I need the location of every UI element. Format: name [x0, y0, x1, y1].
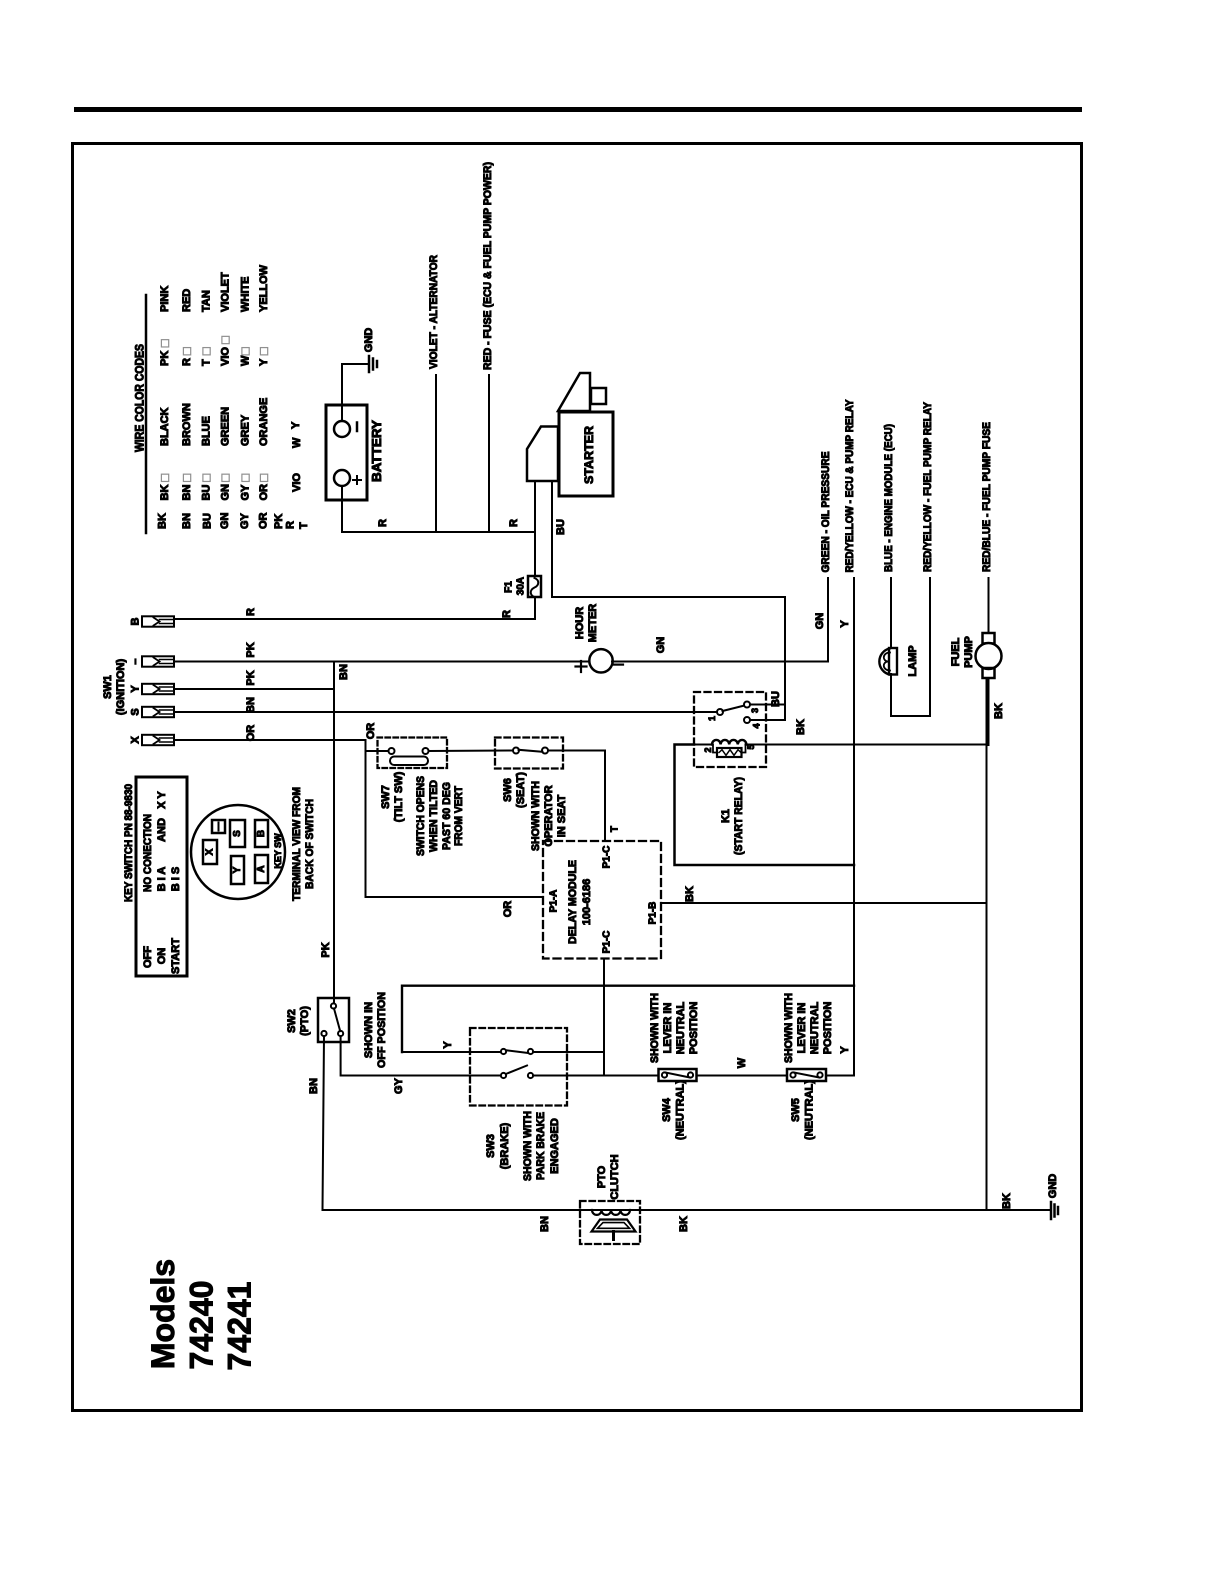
svg-text:LEVER IN: LEVER IN	[796, 1003, 808, 1054]
wire OR down to delay module P1-A	[366, 740, 544, 897]
relay K1 pin 3 contact	[744, 702, 750, 708]
svg-text:PK: PK	[159, 351, 171, 366]
svg-text:POSITION: POSITION	[688, 1002, 700, 1055]
svg-text:SHOWN IN: SHOWN IN	[363, 1002, 375, 1058]
SW3 upper contacts closed	[501, 1049, 506, 1054]
svg-text:PAST 60 DEG: PAST 60 DEG	[441, 782, 453, 850]
svg-text:BN: BN	[245, 697, 257, 713]
delay module 100-6186 enclosure	[543, 841, 661, 959]
wire alternator feed	[435, 375, 437, 532]
svg-text:BK: BK	[159, 485, 171, 501]
svg-text:S: S	[130, 708, 142, 715]
svg-text:SHOWN WITH: SHOWN WITH	[522, 1111, 534, 1181]
svg-text:(PTO): (PTO)	[299, 1006, 311, 1036]
svg-text:30A: 30A	[516, 577, 527, 595]
svg-text:BU: BU	[202, 513, 214, 529]
svg-text:S: S	[232, 830, 243, 837]
svg-text:F1: F1	[504, 581, 515, 593]
svg-text:GN: GN	[655, 637, 667, 654]
key switch terminal view circle	[191, 805, 285, 899]
SW2 PTO switch box	[318, 998, 349, 1042]
hour meter minus mark	[614, 663, 623, 665]
wire lamp to fuel pump relay feed	[891, 674, 930, 716]
SW1 terminal B	[142, 616, 174, 626]
svg-text:Y: Y	[442, 1041, 454, 1049]
SW4 neutral switch	[659, 1069, 697, 1081]
svg-text:R: R	[508, 519, 520, 527]
svg-text:–: –	[130, 658, 142, 664]
svg-text:R: R	[377, 519, 389, 527]
svg-text:2: 2	[703, 747, 713, 752]
wire fuel pump to BK ground line	[988, 678, 990, 745]
svg-text:GN: GN	[219, 512, 231, 529]
wire Y ecu-pump-relay vertical	[853, 578, 855, 1076]
svg-text:PUMP: PUMP	[963, 636, 975, 668]
svg-text:VIOLET - ALTERNATOR: VIOLET - ALTERNATOR	[428, 255, 440, 369]
svg-text:NEUTRAL: NEUTRAL	[809, 1001, 821, 1054]
SW1 terminal X	[142, 735, 174, 745]
wire color codes table rule	[145, 295, 148, 533]
svg-text:BK: BK	[157, 513, 169, 529]
svg-text:R: R	[245, 608, 257, 616]
svg-text:FROM VERT: FROM VERT	[453, 786, 465, 846]
hour meter M1	[589, 649, 612, 672]
svg-text:P1-B: P1-B	[648, 902, 659, 925]
svg-text:GY: GY	[240, 484, 252, 501]
wire W between neutral switches	[697, 1075, 788, 1077]
svg-text:SHOWN WITH: SHOWN WITH	[783, 993, 795, 1063]
svg-text:GND: GND	[1047, 1174, 1059, 1199]
svg-text:OR: OR	[245, 725, 257, 742]
svg-text:RED/BLUE - FUEL PUMP FUSE: RED/BLUE - FUEL PUMP FUSE	[981, 422, 993, 572]
svg-text:Y: Y	[258, 358, 270, 366]
wire PK ignition to hour meter	[174, 661, 588, 663]
svg-text:GND: GND	[363, 328, 375, 353]
svg-text:T: T	[298, 522, 310, 529]
svg-text:PK: PK	[273, 514, 285, 529]
svg-text:B: B	[256, 830, 267, 837]
svg-text:W: W	[291, 437, 303, 448]
wire Y to brake switch	[402, 1051, 501, 1053]
wire battery negative to ground	[342, 364, 369, 421]
svg-text:(TILT SW): (TILT SW)	[393, 771, 405, 822]
fuel pump motor	[983, 633, 995, 644]
svg-text:SW3: SW3	[485, 1134, 497, 1158]
svg-text:PK: PK	[245, 642, 257, 657]
svg-text:ON: ON	[156, 948, 168, 965]
key terminal A	[255, 855, 268, 883]
battery B1	[326, 405, 367, 500]
svg-text:BK: BK	[684, 886, 696, 902]
svg-text:P1-C: P1-C	[602, 846, 613, 869]
svg-text:SW5: SW5	[790, 1098, 802, 1122]
svg-text:YELLOW: YELLOW	[258, 264, 270, 312]
wire relay coil pin5 to BK ground	[746, 744, 987, 746]
svg-text:BK: BK	[1001, 1193, 1013, 1209]
starter terminal block	[591, 388, 606, 404]
svg-text:P1-C: P1-C	[602, 931, 613, 954]
relay K1 enclosure	[694, 692, 766, 767]
SW6 seat switch enclosure	[495, 738, 563, 769]
wire GY brake to neutral switches	[533, 1075, 659, 1077]
wire P1-B BK to ground line	[661, 902, 987, 904]
svg-text:Models: Models	[145, 1259, 181, 1369]
svg-text:BN: BN	[181, 485, 193, 501]
svg-text:OR: OR	[258, 484, 270, 501]
SW3 brake switch enclosure	[470, 1028, 567, 1106]
wire starter BU to relay	[552, 481, 785, 720]
wire relay coil pin2 to neutral circuit	[675, 745, 855, 866]
svg-text:Y: Y	[839, 620, 851, 628]
wire fuse to R line	[534, 597, 536, 619]
fuse F1 30A	[528, 576, 541, 597]
wire BK clutch to ground	[640, 1209, 1051, 1211]
svg-text:OR: OR	[365, 723, 377, 740]
svg-text:IN SEAT: IN SEAT	[556, 794, 568, 837]
PTO clutch coil	[580, 1209, 640, 1211]
svg-text:WHITE: WHITE	[240, 277, 252, 312]
lamp DS1	[879, 649, 889, 675]
key terminal B	[255, 820, 268, 847]
svg-text:SW1: SW1	[102, 675, 114, 699]
svg-text:VIO: VIO	[291, 473, 303, 492]
svg-text:METER: METER	[587, 604, 599, 643]
svg-text:74241: 74241	[222, 1282, 258, 1371]
svg-text:T: T	[201, 359, 213, 366]
svg-text:KEY SW: KEY SW	[273, 833, 283, 869]
svg-text:BU: BU	[555, 519, 567, 535]
svg-text:OFF: OFF	[142, 946, 154, 968]
wire fuse feed	[488, 375, 490, 532]
SW3 lower contacts open	[501, 1073, 506, 1078]
battery plus mark	[353, 479, 361, 481]
svg-text:BU: BU	[201, 485, 213, 501]
svg-text:SW7: SW7	[380, 785, 392, 809]
svg-text:BK: BK	[993, 703, 1005, 719]
key switch table box	[136, 777, 187, 976]
wire ECU feed to lamp	[890, 578, 892, 648]
svg-text:BACK OF SWITCH: BACK OF SWITCH	[304, 799, 316, 889]
wire SW5 to Y line	[826, 1075, 854, 1077]
svg-text:PINK: PINK	[159, 286, 171, 312]
svg-text:BATTERY: BATTERY	[370, 419, 384, 482]
svg-text:(BRAKE): (BRAKE)	[499, 1122, 511, 1169]
svg-text:SW6: SW6	[502, 778, 514, 802]
svg-text:K1: K1	[720, 809, 732, 823]
svg-text:LEVER IN: LEVER IN	[662, 1003, 674, 1054]
wire Y brake to P1-C node	[533, 1051, 603, 1053]
svg-text:1: 1	[707, 716, 717, 721]
svg-text:ORANGE: ORANGE	[258, 398, 270, 446]
wire starter R to fuse F1	[534, 481, 536, 576]
svg-text:RED/YELLOW - FUEL PUMP RELAY: RED/YELLOW - FUEL PUMP RELAY	[922, 401, 934, 572]
svg-text:TERMINAL VIEW FROM: TERMINAL VIEW FROM	[291, 787, 303, 901]
key terminal Y	[231, 856, 244, 884]
starter solenoid upper shape	[558, 373, 590, 411]
relay K1 coil	[694, 744, 712, 746]
starter left housing	[527, 427, 558, 482]
relay K1 pin 1 contact	[717, 709, 723, 715]
svg-text:LAMP: LAMP	[907, 645, 919, 676]
svg-text:(SEAT): (SEAT)	[515, 772, 527, 808]
wire BN S terminal to relay K1 pin1	[174, 711, 718, 713]
svg-text:CLUTCH: CLUTCH	[609, 1154, 621, 1199]
svg-text:POSITION: POSITION	[822, 1002, 834, 1055]
svg-text:ENGAGED: ENGAGED	[549, 1118, 561, 1174]
svg-text:PARK BRAKE: PARK BRAKE	[535, 1112, 547, 1180]
svg-text:NEUTRAL: NEUTRAL	[675, 1001, 687, 1054]
svg-text:B I A: B I A	[156, 867, 168, 892]
PTO clutch rotor	[592, 1220, 636, 1232]
battery minus mark	[356, 423, 359, 432]
svg-text:RED/YELLOW - ECU & PUMP RELAY: RED/YELLOW - ECU & PUMP RELAY	[844, 399, 856, 573]
svg-text:BN: BN	[308, 1078, 320, 1094]
svg-text:NO CONECTION: NO CONECTION	[142, 814, 154, 892]
svg-text:TAN: TAN	[201, 290, 213, 312]
svg-text:R: R	[181, 358, 193, 366]
svg-text:B: B	[130, 617, 142, 625]
svg-text:SWITCH OPENS: SWITCH OPENS	[415, 776, 427, 856]
svg-text:X: X	[130, 736, 142, 744]
key terminal S	[230, 820, 245, 847]
drawing border frame	[73, 144, 1082, 1411]
relay K1 coil resistor	[713, 745, 717, 753]
svg-text:(IGNITION): (IGNITION)	[115, 659, 127, 716]
svg-text:BN: BN	[338, 664, 350, 680]
SW7 contacts	[389, 748, 395, 754]
wire BN SW2 to PTO clutch	[323, 1036, 581, 1210]
svg-text:STARTER: STARTER	[582, 426, 596, 484]
svg-text:R: R	[285, 521, 297, 529]
svg-text:BK: BK	[678, 1216, 690, 1232]
wire OR X terminal	[174, 739, 366, 741]
svg-text:X: X	[205, 848, 216, 855]
svg-text:GREEN: GREEN	[220, 407, 232, 446]
svg-text:74240: 74240	[184, 1281, 220, 1370]
svg-text:X Y: X Y	[156, 791, 168, 809]
svg-text:OR: OR	[258, 512, 270, 529]
svg-text:AND: AND	[156, 818, 168, 842]
svg-text:B I S: B I S	[170, 867, 182, 891]
SW1 terminal Y	[142, 684, 174, 694]
svg-text:START: START	[170, 938, 182, 974]
SW1 terminal –	[142, 656, 174, 666]
SW6 closed arm	[519, 750, 543, 752]
svg-text:FUEL: FUEL	[950, 637, 962, 666]
svg-text:SW4: SW4	[661, 1097, 673, 1122]
wire neutral box top	[402, 986, 854, 1052]
title rule (thick top line)	[74, 107, 1082, 112]
svg-text:R: R	[501, 610, 513, 618]
SW5 neutral switch	[787, 1069, 826, 1081]
svg-text:4: 4	[752, 723, 762, 728]
svg-text:P1-A: P1-A	[549, 890, 560, 913]
ground (chassis)	[1050, 1202, 1053, 1219]
SW1 terminal S	[142, 707, 174, 717]
svg-text:GREY: GREY	[240, 414, 252, 446]
ground (battery)	[368, 356, 371, 372]
svg-text:SHOWN WITH: SHOWN WITH	[649, 993, 661, 1063]
svg-text:GY: GY	[239, 512, 251, 529]
svg-text:T: T	[610, 826, 621, 832]
svg-text:W: W	[240, 355, 252, 366]
svg-text:OPERATOR: OPERATOR	[543, 785, 555, 846]
wire BN vertical to SW2	[333, 662, 335, 1004]
SW2 contacts	[331, 1003, 336, 1008]
svg-text:Y: Y	[839, 1046, 851, 1054]
svg-text:Y: Y	[130, 685, 142, 693]
wire stub to tilt switch	[366, 750, 389, 752]
svg-text:BROWN: BROWN	[181, 403, 193, 446]
starter motor body	[559, 412, 613, 496]
svg-text:(NEUTRAL): (NEUTRAL)	[675, 1080, 687, 1140]
svg-text:BN: BN	[181, 513, 193, 529]
svg-text:3: 3	[750, 708, 760, 713]
wire tilt switch to seat switch	[429, 750, 514, 753]
svg-text:A: A	[256, 865, 267, 872]
svg-text:WHEN TILTED: WHEN TILTED	[428, 780, 440, 852]
svg-text:PK: PK	[245, 670, 257, 685]
svg-text:Y: Y	[290, 421, 302, 429]
SW7 mercury capsule	[390, 757, 428, 766]
wire fuel pump relay feed	[929, 578, 931, 716]
wire P1-C down to neutral switches	[603, 959, 605, 1076]
hour meter plus mark	[576, 665, 587, 667]
svg-text:HOUR: HOUR	[574, 607, 586, 639]
svg-text:BLACK: BLACK	[159, 407, 171, 446]
PTO clutch enclosure	[580, 1201, 640, 1244]
wire R bus	[342, 531, 535, 533]
wire battery positive down to R bus	[341, 486, 343, 532]
svg-text:GREEN - OIL PRESSURE: GREEN - OIL PRESSURE	[820, 452, 832, 573]
svg-text:BLUE - ENGINE MODULE (ECU): BLUE - ENGINE MODULE (ECU)	[883, 424, 895, 572]
svg-text:KEY SWITCH PN 88-9830: KEY SWITCH PN 88-9830	[123, 784, 135, 902]
svg-text:DELAY MODULE: DELAY MODULE	[567, 860, 579, 944]
svg-text:BLUE: BLUE	[201, 416, 213, 446]
wire BK main ground line	[986, 678, 988, 1210]
svg-text:PK: PK	[320, 942, 332, 957]
wire T seat switch to P1-C	[548, 751, 605, 842]
SW7 tilt switch enclosure	[378, 738, 448, 769]
wire GN hour meter to oil pressure	[612, 578, 828, 662]
svg-text:PTO: PTO	[596, 1165, 608, 1188]
svg-text:BU: BU	[770, 691, 782, 707]
svg-text:GN: GN	[814, 613, 826, 630]
svg-text:RED - FUSE (ECU & FUEL PUMP P: RED - FUSE (ECU & FUEL PUMP POWER)	[482, 162, 494, 370]
SW6 contacts	[513, 748, 519, 754]
relay K1 armature	[723, 706, 745, 712]
wire Y terminal to BN node	[174, 688, 334, 690]
relay K1 pin 4 contact	[744, 717, 750, 723]
svg-text:100-6186: 100-6186	[581, 879, 593, 926]
svg-text:SHOWN WITH: SHOWN WITH	[530, 781, 542, 851]
key terminal X	[203, 840, 217, 864]
svg-text:OFF POSITION: OFF POSITION	[376, 992, 388, 1068]
svg-text:BN: BN	[539, 1216, 551, 1232]
wire fuel pump fuse feed	[988, 578, 990, 633]
svg-text:W: W	[736, 1057, 748, 1068]
svg-text:VIO: VIO	[220, 347, 232, 366]
svg-text:VIOLET: VIOLET	[220, 272, 232, 312]
svg-text:Y: Y	[232, 866, 243, 873]
svg-text:(NEUTRAL): (NEUTRAL)	[804, 1080, 816, 1140]
svg-text:SW2: SW2	[286, 1009, 298, 1033]
wire R to ignition B terminal	[174, 618, 535, 620]
svg-text:WIRE COLOR CODES: WIRE COLOR CODES	[135, 344, 147, 452]
svg-text:RED: RED	[181, 289, 193, 312]
wire GY SW2 to brake switch	[341, 1036, 501, 1075]
svg-text:OR: OR	[502, 901, 514, 918]
key terminal minus	[212, 820, 225, 833]
svg-text:(START RELAY): (START RELAY)	[733, 777, 745, 855]
SW2 arm	[334, 1009, 340, 1032]
svg-text:GY: GY	[393, 1077, 405, 1094]
svg-text:GN: GN	[220, 484, 232, 501]
svg-text:BK: BK	[795, 719, 807, 735]
